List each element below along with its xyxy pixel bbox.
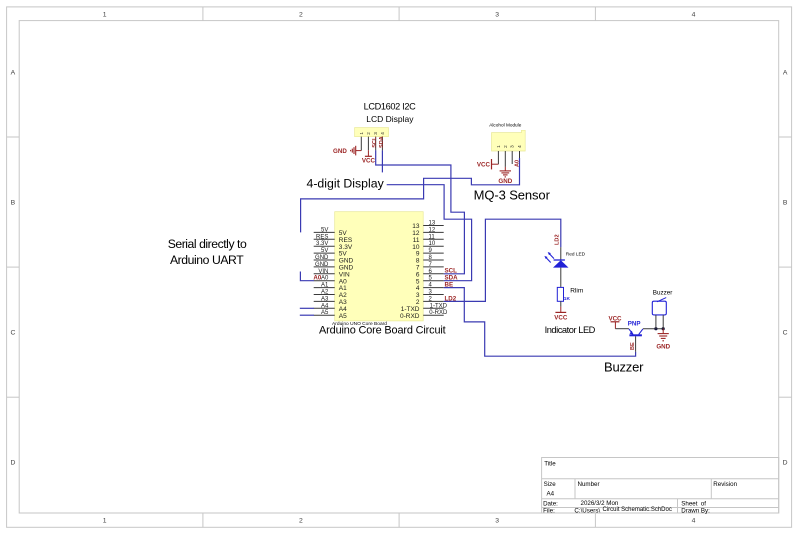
ground GND (MQ-3) [498, 167, 512, 185]
svg-text:A0: A0 [313, 275, 321, 282]
svg-text:GND: GND [656, 343, 670, 350]
Arduino left pin VIN [314, 269, 350, 279]
svg-text:1: 1 [496, 145, 501, 148]
Arduino left pin A4 [314, 303, 347, 313]
svg-text:GND: GND [333, 148, 347, 155]
svg-text:of: of [701, 500, 706, 507]
Arduino left pin GND [314, 262, 354, 272]
svg-text:C: C [783, 330, 788, 337]
LCD pin 4 [381, 137, 383, 151]
svg-text:Arduino Core Board Circuit: Arduino Core Board Circuit [319, 325, 446, 337]
ground GND (buzzer) [656, 329, 670, 351]
MQ-3 pin 3 [511, 151, 513, 164]
svg-text:Sheet: Sheet [681, 500, 697, 507]
svg-text:Size: Size [544, 481, 557, 488]
Arduino right pin 3 [416, 290, 444, 300]
MQ-3 alcohol sensor module [489, 123, 525, 151]
svg-text:C: C [10, 330, 15, 337]
wire SDA stub from LCD pin4 [381, 150, 383, 172]
svg-text:4: 4 [517, 145, 522, 148]
MQ-3 pin numbers 1 2 3 4 [496, 145, 522, 148]
Arduino left pin RES [314, 234, 353, 244]
wire: MQ-3 A0 down-left to Arduino left area [301, 158, 520, 232]
Arduino right pin 4 [416, 283, 444, 293]
wire: VCC to emitter [615, 328, 629, 330]
svg-text:Drawn By:: Drawn By: [681, 508, 710, 515]
svg-text:Buzzer: Buzzer [653, 290, 673, 297]
buzzer pin 1 [655, 315, 657, 329]
svg-text:D: D [783, 460, 788, 467]
MQ-3 pin 4 [519, 151, 521, 158]
svg-text:BE: BE [630, 342, 636, 350]
wire: 4-digit display to Arduino pin 5 (SDA) [387, 185, 472, 281]
svg-text:4: 4 [692, 518, 696, 525]
svg-text:A5: A5 [321, 310, 329, 316]
Arduino right pin 9 [416, 248, 444, 258]
wire at A0 (left) [300, 272, 314, 281]
svg-text:0-RXD: 0-RXD [400, 313, 420, 320]
svg-text:Alcohol Module: Alcohol Module [489, 123, 521, 128]
svg-text:PNP: PNP [628, 321, 641, 328]
Arduino left pin 5V [314, 248, 348, 258]
svg-text:Rlim: Rlim [570, 287, 583, 294]
svg-text:Date:: Date: [543, 500, 558, 507]
svg-text:13: 13 [429, 221, 436, 227]
svg-text:Serial directly to: Serial directly to [168, 237, 247, 251]
svg-text:4-digit Display: 4-digit Display [307, 176, 385, 190]
svg-text:Revision: Revision [713, 481, 737, 488]
svg-text:A4: A4 [321, 303, 329, 309]
svg-text:12: 12 [429, 227, 436, 233]
LCD1602 I2C display module [355, 102, 417, 137]
buzzer pin 2 [662, 315, 664, 329]
svg-text:A2: A2 [321, 290, 329, 296]
svg-text:2: 2 [299, 518, 303, 525]
wire: collector to buzzer [643, 328, 663, 330]
Arduino right pin 0-RXD [400, 310, 448, 320]
svg-text:Arduino UART: Arduino UART [170, 253, 244, 267]
svg-text:3: 3 [495, 12, 499, 19]
LCD pin 3 [375, 137, 377, 151]
MQ-3 pin 1 [497, 151, 499, 164]
Arduino right pin 2 [416, 296, 444, 306]
Arduino UNO core board [335, 212, 424, 321]
LCD pin 2 [367, 137, 369, 151]
Arduino left pin GND [314, 255, 354, 265]
svg-text:Buzzer: Buzzer [604, 359, 644, 374]
svg-text:A4: A4 [547, 491, 555, 498]
svg-text:A: A [11, 69, 16, 76]
Arduino left pin 3.3V [314, 241, 353, 251]
transistor base lead [635, 336, 637, 352]
svg-text:3: 3 [510, 145, 515, 148]
svg-text:Circuit Schematic.SchDoc: Circuit Schematic.SchDoc [603, 507, 672, 513]
Arduino left pin A0 [314, 276, 347, 286]
svg-text:Number: Number [578, 481, 600, 488]
svg-text:GND: GND [315, 255, 329, 261]
svg-text:B: B [11, 200, 16, 207]
svg-text:LCD Display: LCD Display [366, 114, 414, 124]
svg-text:1-TXD: 1-TXD [430, 303, 448, 309]
wire SCL : LCD pin3 to Arduino pin 6 [376, 150, 465, 273]
svg-text:11: 11 [429, 234, 436, 240]
power VCC (below Rlim) [554, 307, 568, 322]
svg-text:4: 4 [692, 12, 696, 19]
Arduino left pin A3 [314, 296, 347, 306]
wire LD2 : Arduino pin 2 to LED [444, 219, 561, 301]
svg-text:1: 1 [103, 12, 107, 19]
svg-text:A1: A1 [321, 283, 329, 289]
svg-text:2026/3/2 Mon: 2026/3/2 Mon [581, 500, 619, 507]
LED to resistor lead [560, 268, 562, 288]
junction (buzzer pin 2) [662, 327, 665, 330]
LED top lead [560, 247, 562, 260]
svg-text:10: 10 [429, 241, 436, 247]
Arduino left pin A5 [314, 310, 347, 320]
svg-text:2: 2 [366, 132, 371, 135]
power VCC (MQ-3) [477, 159, 498, 169]
Arduino right pin 10 [412, 241, 443, 251]
resistor bottom lead [560, 301, 562, 306]
svg-text:A5: A5 [339, 313, 347, 320]
svg-text:D: D [10, 460, 15, 467]
svg-text:LCD1602 I2C: LCD1602 I2C [364, 102, 417, 112]
LED LD2 (Red LED) [544, 252, 568, 268]
svg-text:File:: File: [543, 508, 555, 515]
svg-text:LD2: LD2 [555, 234, 561, 245]
Arduino right pin 5 [416, 276, 444, 286]
buzzer [652, 298, 666, 315]
svg-text:GND: GND [498, 178, 512, 185]
power VCC (LCD) [362, 150, 376, 164]
Arduino right pin 13 [412, 221, 443, 231]
svg-text:5V: 5V [321, 227, 328, 233]
MQ-3 pin 2 [504, 151, 506, 167]
wire at A4 (left) [300, 307, 314, 309]
svg-text:5V: 5V [321, 248, 328, 254]
svg-text:Red LED: Red LED [566, 251, 586, 257]
svg-text:B: B [783, 200, 788, 207]
junction (buzzer pin 1) [654, 327, 657, 330]
power VCC (transistor emitter) [608, 315, 622, 328]
Arduino right pin 1-TXD [401, 303, 448, 313]
svg-text:4: 4 [380, 132, 385, 135]
wire at A5 (left) [300, 314, 314, 316]
svg-text:VCC: VCC [554, 314, 568, 321]
svg-text:VCC: VCC [477, 162, 491, 169]
svg-text:C:\Users\: C:\Users\ [574, 508, 600, 515]
Arduino left pin A1 [314, 283, 347, 293]
svg-text:RES: RES [316, 234, 328, 240]
Arduino right pin 6 [416, 269, 444, 279]
svg-text:3.3V: 3.3V [316, 241, 328, 247]
LCD pin numbers 1 2 3 4 [359, 132, 385, 135]
svg-text:SCL: SCL [372, 136, 378, 148]
svg-text:MQ-3 Sensor: MQ-3 Sensor [474, 187, 551, 202]
svg-text:1: 1 [359, 132, 364, 135]
Arduino left pin 5V [314, 227, 348, 237]
Arduino right pin 12 [412, 227, 443, 237]
transistor PNP [628, 321, 643, 336]
svg-text:SDA: SDA [379, 136, 385, 148]
svg-text:3: 3 [495, 518, 499, 525]
resistor Rlim [557, 287, 563, 301]
svg-text:0-RXD: 0-RXD [429, 310, 448, 316]
svg-text:GND: GND [315, 262, 329, 268]
svg-text:A3: A3 [321, 296, 329, 302]
svg-text:1: 1 [103, 518, 107, 525]
svg-text:2: 2 [299, 12, 303, 19]
Arduino right pin 7 [416, 262, 444, 272]
svg-text:Title: Title [544, 461, 556, 468]
svg-text:A: A [783, 69, 788, 76]
Arduino right pin 11 [413, 234, 444, 244]
wire BE : Arduino pin 4 to transistor base [444, 288, 636, 357]
Arduino left pin A2 [314, 290, 347, 300]
svg-text:3: 3 [373, 132, 378, 135]
svg-text:2: 2 [503, 145, 508, 148]
svg-text:1K: 1K [564, 296, 571, 302]
Arduino right pin 8 [416, 255, 444, 265]
ground GND (LCD, rotated) [333, 146, 361, 156]
svg-text:A0: A0 [321, 276, 329, 282]
svg-text:Indicator LED: Indicator LED [545, 325, 596, 335]
svg-text:VCC: VCC [362, 158, 376, 165]
LCD pin 1 [360, 137, 362, 151]
